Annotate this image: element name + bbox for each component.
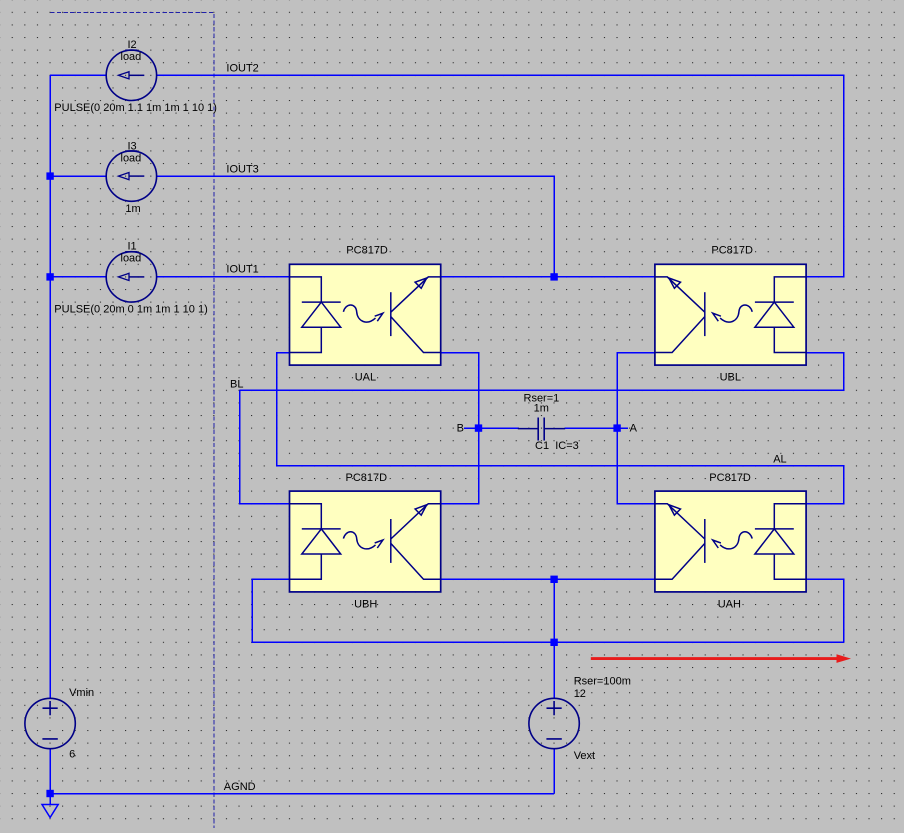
svg-text:B: B xyxy=(457,423,464,435)
svg-text:Rser=100m: Rser=100m xyxy=(574,676,631,688)
svg-text:AGND: AGND xyxy=(224,781,256,793)
svg-text:1m: 1m xyxy=(125,203,140,215)
svg-text:PULSE(0 20m 0 1m 1m 1 10 1): PULSE(0 20m 0 1m 1m 1 10 1) xyxy=(54,304,207,316)
svg-text:UAL: UAL xyxy=(355,372,376,384)
svg-text:Vext: Vext xyxy=(574,750,595,762)
svg-text:IC=3: IC=3 xyxy=(555,440,579,452)
svg-text:PC817D: PC817D xyxy=(346,245,388,257)
svg-text:6: 6 xyxy=(69,749,75,761)
svg-text:I2: I2 xyxy=(128,39,137,51)
svg-text:PC817D: PC817D xyxy=(346,472,388,484)
svg-text:I3: I3 xyxy=(128,141,137,153)
svg-text:PC817D: PC817D xyxy=(711,245,753,257)
svg-text:12: 12 xyxy=(574,688,586,700)
svg-text:IOUT1: IOUT1 xyxy=(226,264,258,276)
svg-text:IOUT2: IOUT2 xyxy=(226,63,258,75)
svg-text:BL: BL xyxy=(230,379,243,391)
svg-text:A: A xyxy=(630,423,638,435)
svg-text:PULSE(0 20m 1.1 1m 1m 1 10 1): PULSE(0 20m 1.1 1m 1m 1 10 1) xyxy=(54,102,217,114)
svg-text:I1: I1 xyxy=(128,241,137,253)
svg-text:Vmin: Vmin xyxy=(69,687,94,699)
svg-text:PC817D: PC817D xyxy=(709,472,751,484)
svg-text:load: load xyxy=(121,153,142,165)
svg-text:UAH: UAH xyxy=(718,599,741,611)
svg-text:UBH: UBH xyxy=(354,599,377,611)
svg-text:load: load xyxy=(121,51,142,63)
svg-text:UBL: UBL xyxy=(720,372,741,384)
svg-text:load: load xyxy=(121,253,142,265)
svg-text:1m: 1m xyxy=(534,403,549,415)
svg-text:C1: C1 xyxy=(535,440,549,452)
svg-text:IOUT3: IOUT3 xyxy=(226,164,258,176)
svg-text:AL: AL xyxy=(773,454,786,466)
